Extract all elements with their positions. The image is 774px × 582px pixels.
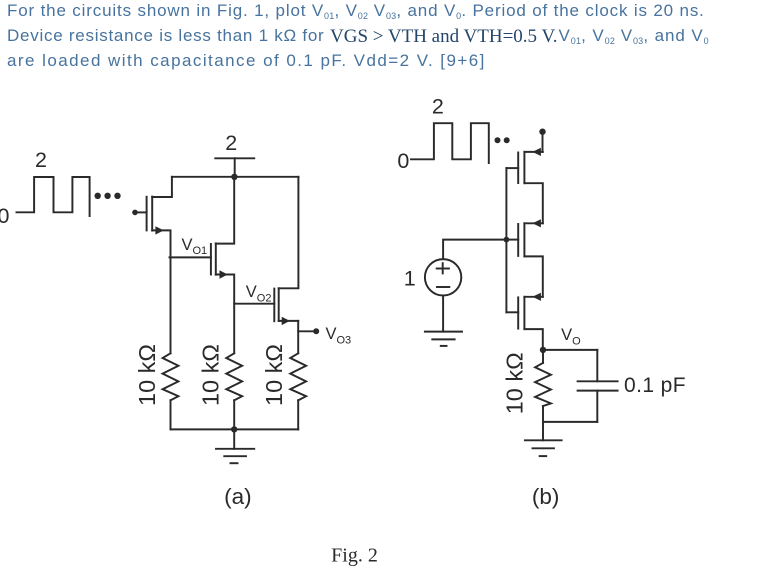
svg-text:V: V [182, 236, 193, 254]
svg-text:2: 2 [35, 148, 47, 172]
svg-text:O3: O3 [337, 334, 352, 346]
svg-text:Fig. 2: Fig. 2 [331, 545, 378, 567]
svg-text:V: V [326, 325, 337, 343]
svg-text:10 kΩ: 10 kΩ [502, 352, 528, 414]
svg-text:10 kΩ: 10 kΩ [134, 344, 160, 406]
svg-text:O2: O2 [257, 293, 272, 305]
svg-text:0.1 pF: 0.1 pF [624, 374, 686, 397]
svg-text:10 kΩ: 10 kΩ [198, 344, 224, 406]
svg-text:V: V [246, 283, 257, 301]
svg-text:V: V [561, 326, 572, 344]
svg-text:O1: O1 [193, 245, 208, 257]
svg-text:(b): (b) [532, 484, 560, 509]
svg-text:(a): (a) [224, 484, 252, 509]
svg-text:1: 1 [404, 266, 416, 290]
svg-text:0: 0 [0, 204, 10, 228]
svg-text:2: 2 [432, 95, 444, 119]
svg-text:O: O [572, 336, 581, 348]
svg-text:2: 2 [225, 131, 237, 155]
svg-text:10 kΩ: 10 kΩ [261, 344, 287, 406]
svg-text:0: 0 [397, 149, 409, 173]
